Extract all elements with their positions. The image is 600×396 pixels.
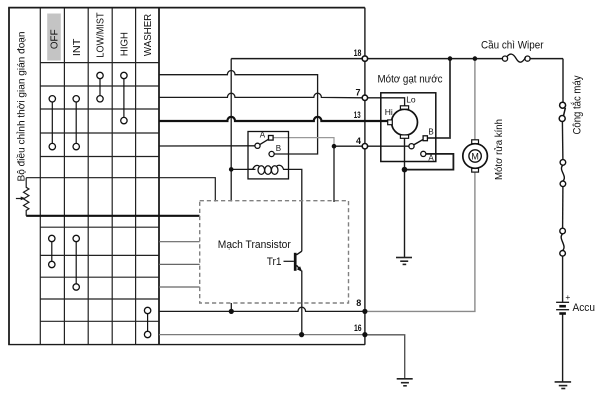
svg-text:Mạch Transistor: Mạch Transistor bbox=[218, 239, 291, 251]
svg-text:Mótơ rửa kính: Mótơ rửa kính bbox=[493, 119, 505, 180]
svg-text:Mótơ gạt nước: Mótơ gạt nước bbox=[378, 74, 443, 86]
svg-text:Hi: Hi bbox=[385, 107, 393, 117]
svg-text:8: 8 bbox=[356, 298, 361, 308]
svg-text:B: B bbox=[428, 127, 433, 136]
svg-text:INT: INT bbox=[72, 39, 83, 57]
svg-text:HIGH: HIGH bbox=[120, 32, 131, 56]
svg-text:16: 16 bbox=[354, 323, 362, 333]
svg-text:LOW/MIST: LOW/MIST bbox=[96, 12, 107, 57]
svg-text:Lo: Lo bbox=[406, 94, 416, 104]
svg-text:7: 7 bbox=[356, 88, 361, 98]
svg-text:M: M bbox=[471, 151, 479, 161]
svg-text:Bộ điều chỉnh thời gian gián đ: Bộ điều chỉnh thời gian gián đoạn bbox=[15, 31, 27, 181]
svg-text:A: A bbox=[428, 154, 434, 163]
svg-text:Accu: Accu bbox=[573, 302, 596, 314]
svg-text:18: 18 bbox=[354, 48, 362, 58]
svg-text:13: 13 bbox=[354, 110, 361, 120]
svg-text:WASHER: WASHER bbox=[143, 14, 154, 56]
svg-text:B: B bbox=[276, 144, 281, 153]
svg-text:+: + bbox=[565, 292, 570, 302]
svg-text:OFF: OFF bbox=[50, 29, 61, 49]
svg-text:Công tắc máy: Công tắc máy bbox=[571, 75, 584, 134]
svg-text:Tr1: Tr1 bbox=[267, 256, 282, 268]
svg-text:4: 4 bbox=[356, 136, 361, 146]
svg-text:Cầu chì Wiper: Cầu chì Wiper bbox=[481, 40, 544, 52]
svg-text:A: A bbox=[260, 131, 266, 140]
